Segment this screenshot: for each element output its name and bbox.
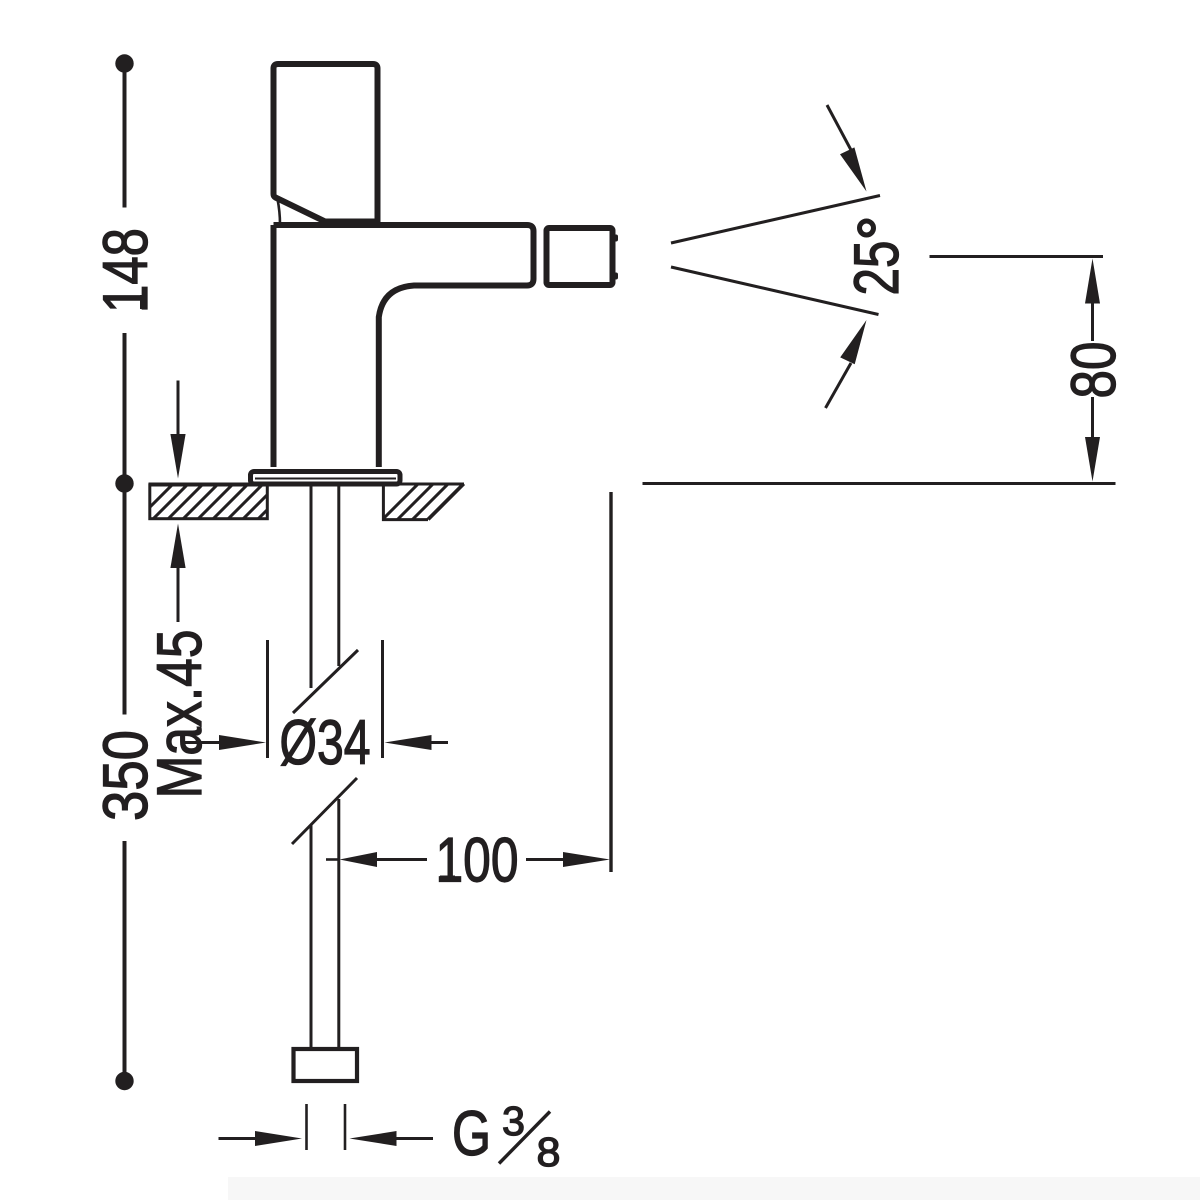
dimension 100 right extension line <box>609 492 612 872</box>
svg-text:8: 8 <box>537 1129 561 1175</box>
G3/8 left extension tick <box>305 1104 308 1150</box>
spray angle upper leader arrow <box>827 105 867 192</box>
wire dimension line 350 <box>123 491 127 1077</box>
dimension Ø34 left arrow <box>183 735 267 750</box>
G3/8 right arrow <box>350 1131 434 1146</box>
counter hatch right block <box>380 482 465 522</box>
dimension Ø34 left extension tick <box>266 640 269 758</box>
dimension Ø34 right extension tick <box>381 640 384 758</box>
G3/8 fraction slash <box>499 1112 550 1164</box>
hose right line upper <box>337 486 340 666</box>
dimension 100 left arrow <box>340 852 428 867</box>
aerator body <box>547 228 613 285</box>
spray lower line <box>671 267 879 315</box>
svg-text:25: 25 <box>842 241 912 296</box>
wire Max.45 lower arrow <box>170 524 185 623</box>
handle lever tip thin edge <box>278 199 281 224</box>
hose right line lower <box>337 799 340 1049</box>
G3/8 right extension tick <box>344 1104 347 1150</box>
svg-text:80: 80 <box>1059 342 1129 399</box>
counter level extension line right <box>643 482 1116 485</box>
node dot top of 148 <box>115 54 133 72</box>
svg-text:3: 3 <box>502 1098 525 1144</box>
svg-text:G: G <box>452 1099 491 1169</box>
wire dimension line 148 <box>123 70 127 478</box>
value label G 3/8 <box>452 1098 561 1175</box>
hose break lower diagonal <box>292 778 357 844</box>
dimension 100 right arrow <box>526 852 610 867</box>
faucet handle <box>274 64 378 222</box>
G3/8 left arrow <box>219 1131 303 1146</box>
hose left line lower <box>310 825 313 1049</box>
escutcheon inner line <box>255 478 396 480</box>
wire Max.45 upper arrow <box>170 381 185 479</box>
bottom light band <box>228 1177 1200 1200</box>
counter hatch left block <box>135 482 295 522</box>
svg-text:148: 148 <box>91 228 161 313</box>
faucet body left edge <box>271 225 277 467</box>
escutcheon base plate <box>251 472 401 485</box>
node dot at counter level <box>115 474 133 492</box>
faucet body outline <box>274 225 534 467</box>
node dot bottom of 350 <box>115 1072 133 1090</box>
spray angle lower leader arrow <box>826 320 867 408</box>
spray upper line <box>671 196 880 244</box>
svg-text:100: 100 <box>436 826 519 896</box>
bottom connector block <box>294 1049 358 1081</box>
dimension 80 upper arrow <box>1085 259 1100 342</box>
dimension 80 top extension line <box>930 255 1104 258</box>
dimension 80 lower arrow <box>1085 397 1100 482</box>
aerator nub upper <box>610 235 618 242</box>
counter top line <box>149 483 465 486</box>
hose break upper diagonal <box>293 650 358 713</box>
svg-text:Ø34: Ø34 <box>280 708 371 778</box>
aerator nub lower <box>610 273 618 280</box>
dimension Ø34 right arrow <box>385 735 449 750</box>
hose left line upper <box>310 486 313 688</box>
dimension 100 line left stub <box>326 858 339 861</box>
svg-text:Max.45: Max.45 <box>145 630 215 799</box>
